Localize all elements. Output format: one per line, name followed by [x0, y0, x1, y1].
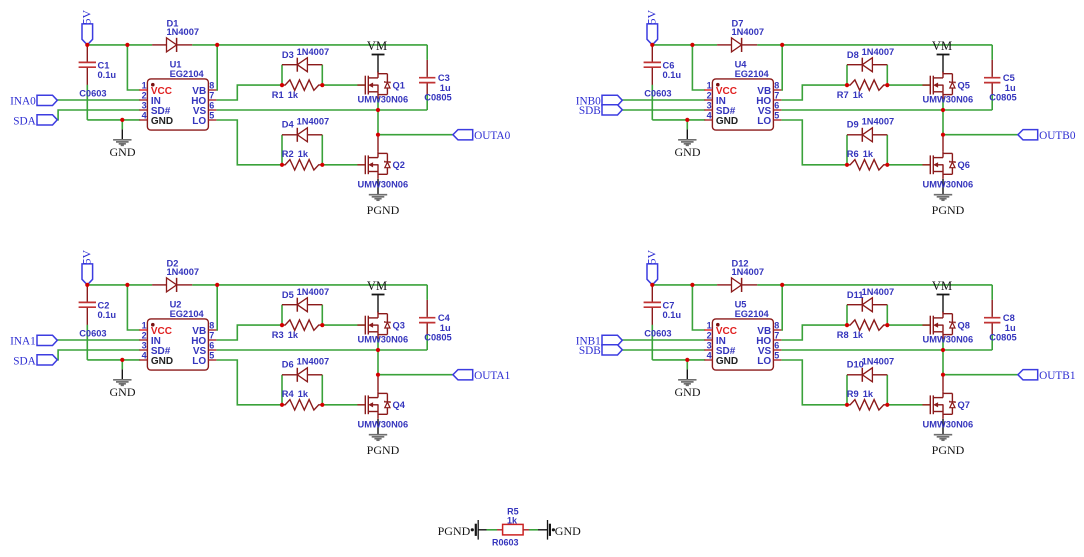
svg-text:R1: R1: [272, 90, 284, 100]
svg-text:C3: C3: [438, 73, 450, 83]
svg-text:PGND: PGND: [367, 203, 400, 217]
svg-text:D3: D3: [282, 50, 294, 60]
svg-text:4: 4: [707, 110, 712, 120]
svg-text:OUTB1: OUTB1: [1039, 370, 1075, 382]
svg-text:Q6: Q6: [958, 160, 970, 170]
svg-text:SDA: SDA: [13, 116, 36, 128]
svg-text:UMW30N06: UMW30N06: [358, 180, 409, 190]
svg-text:UMW30N06: UMW30N06: [358, 94, 409, 104]
svg-text:1N4007: 1N4007: [167, 27, 200, 37]
svg-text:1k: 1k: [863, 149, 874, 159]
svg-text:GND: GND: [675, 385, 701, 399]
svg-text:1k: 1k: [288, 90, 299, 100]
svg-text:UMW30N06: UMW30N06: [923, 180, 974, 190]
svg-text:1N4007: 1N4007: [862, 287, 895, 297]
svg-text:Q7: Q7: [958, 400, 970, 410]
svg-text:1N4007: 1N4007: [297, 356, 330, 366]
svg-text:GND: GND: [110, 145, 136, 159]
svg-text:C0603: C0603: [79, 89, 106, 99]
svg-text:5: 5: [774, 110, 779, 120]
svg-text:Q8: Q8: [958, 320, 970, 330]
svg-text:1N4007: 1N4007: [297, 287, 330, 297]
svg-text:R7: R7: [837, 90, 849, 100]
svg-text:LO: LO: [192, 116, 206, 127]
svg-text:Q4: Q4: [393, 400, 406, 410]
svg-text:1: 1: [142, 80, 147, 90]
svg-text:1k: 1k: [288, 330, 299, 340]
svg-text:LO: LO: [192, 356, 206, 367]
svg-text:SDB: SDB: [579, 345, 601, 357]
svg-text:C5: C5: [1003, 73, 1015, 83]
svg-text:C0603: C0603: [644, 329, 671, 339]
svg-text:VM: VM: [932, 39, 952, 53]
svg-text:0.1u: 0.1u: [98, 310, 117, 320]
svg-text:R0603: R0603: [492, 537, 519, 547]
svg-text:EG2104: EG2104: [170, 309, 205, 319]
svg-text:C0805: C0805: [424, 333, 451, 343]
svg-text:1u: 1u: [440, 83, 451, 93]
svg-text:3: 3: [707, 100, 712, 110]
svg-text:6: 6: [209, 100, 214, 110]
svg-text:8: 8: [774, 80, 779, 90]
svg-text:C4: C4: [438, 313, 451, 323]
svg-text:5: 5: [209, 110, 214, 120]
svg-text:1: 1: [142, 320, 147, 330]
svg-text:EG2104: EG2104: [735, 309, 770, 319]
svg-text:GND: GND: [110, 385, 136, 399]
svg-text:C0805: C0805: [989, 333, 1016, 343]
svg-text:0.1u: 0.1u: [663, 70, 682, 80]
svg-text:2: 2: [142, 90, 147, 100]
svg-text:1u: 1u: [1005, 323, 1016, 333]
svg-text:OUTB0: OUTB0: [1039, 130, 1076, 142]
svg-text:OUTA1: OUTA1: [474, 370, 510, 382]
svg-text:1u: 1u: [440, 323, 451, 333]
svg-text:PGND: PGND: [932, 203, 965, 217]
svg-text:4: 4: [142, 350, 147, 360]
svg-text:EG2104: EG2104: [170, 69, 205, 79]
svg-text:4: 4: [707, 350, 712, 360]
svg-text:GND: GND: [716, 116, 738, 127]
svg-text:GND: GND: [675, 145, 701, 159]
svg-text:R4: R4: [282, 389, 295, 399]
svg-text:1k: 1k: [298, 389, 309, 399]
svg-text:INA0: INA0: [10, 95, 36, 107]
svg-text:5: 5: [209, 350, 214, 360]
svg-text:1: 1: [707, 320, 712, 330]
svg-text:0.1u: 0.1u: [663, 310, 682, 320]
svg-text:SDA: SDA: [13, 356, 36, 368]
svg-text:LO: LO: [757, 116, 771, 127]
svg-text:1N4007: 1N4007: [732, 267, 765, 277]
svg-text:GND: GND: [151, 116, 173, 127]
svg-text:6: 6: [209, 340, 214, 350]
svg-text:0.1u: 0.1u: [98, 70, 117, 80]
svg-text:1N4007: 1N4007: [732, 27, 765, 37]
svg-text:C0805: C0805: [989, 93, 1016, 103]
svg-text:D8: D8: [847, 50, 859, 60]
svg-text:1k: 1k: [853, 90, 864, 100]
svg-text:3: 3: [142, 100, 147, 110]
svg-text:2: 2: [707, 330, 712, 340]
svg-text:SDB: SDB: [579, 105, 601, 117]
svg-text:1k: 1k: [298, 149, 309, 159]
svg-text:3: 3: [707, 340, 712, 350]
svg-text:INA1: INA1: [10, 335, 36, 347]
svg-text:5V: 5V: [79, 250, 93, 265]
svg-text:R9: R9: [847, 389, 859, 399]
svg-text:UMW30N06: UMW30N06: [358, 334, 409, 344]
svg-text:D4: D4: [282, 120, 295, 130]
svg-text:5V: 5V: [644, 250, 658, 265]
svg-text:VM: VM: [367, 279, 387, 293]
svg-text:GND: GND: [716, 356, 738, 367]
svg-text:2: 2: [142, 330, 147, 340]
svg-text:5V: 5V: [79, 10, 93, 25]
svg-text:R2: R2: [282, 149, 294, 159]
svg-text:PGND: PGND: [438, 524, 471, 538]
svg-text:1k: 1k: [853, 330, 864, 340]
svg-text:OUTA0: OUTA0: [474, 130, 510, 142]
svg-text:2: 2: [707, 90, 712, 100]
svg-text:1N4007: 1N4007: [862, 116, 895, 126]
svg-text:1k: 1k: [507, 516, 518, 526]
svg-text:Q5: Q5: [958, 80, 970, 90]
svg-text:1k: 1k: [863, 389, 874, 399]
svg-text:Q3: Q3: [393, 320, 405, 330]
svg-text:7: 7: [209, 330, 214, 340]
svg-text:5: 5: [774, 350, 779, 360]
svg-text:4: 4: [142, 110, 147, 120]
svg-text:C0603: C0603: [644, 89, 671, 99]
svg-text:D9: D9: [847, 120, 859, 130]
svg-text:PGND: PGND: [367, 443, 400, 457]
svg-text:GND: GND: [555, 524, 581, 538]
svg-text:D5: D5: [282, 290, 294, 300]
svg-text:1N4007: 1N4007: [297, 47, 330, 57]
svg-text:C8: C8: [1003, 313, 1015, 323]
svg-text:3: 3: [142, 340, 147, 350]
svg-text:Q2: Q2: [393, 160, 405, 170]
svg-text:UMW30N06: UMW30N06: [358, 420, 409, 430]
svg-text:R6: R6: [847, 149, 859, 159]
svg-text:LO: LO: [757, 356, 771, 367]
svg-text:1: 1: [707, 80, 712, 90]
svg-text:VM: VM: [932, 279, 952, 293]
svg-text:6: 6: [774, 100, 779, 110]
svg-text:7: 7: [774, 330, 779, 340]
svg-text:UMW30N06: UMW30N06: [923, 334, 974, 344]
svg-text:6: 6: [774, 340, 779, 350]
svg-text:C0603: C0603: [79, 329, 106, 339]
svg-text:7: 7: [209, 90, 214, 100]
svg-text:UMW30N06: UMW30N06: [923, 94, 974, 104]
svg-text:C0805: C0805: [424, 93, 451, 103]
svg-text:8: 8: [209, 320, 214, 330]
svg-text:R3: R3: [272, 330, 284, 340]
svg-text:8: 8: [209, 80, 214, 90]
svg-text:D6: D6: [282, 360, 294, 370]
svg-text:8: 8: [774, 320, 779, 330]
svg-text:1N4007: 1N4007: [862, 47, 895, 57]
svg-text:VM: VM: [367, 39, 387, 53]
svg-text:5V: 5V: [644, 9, 658, 24]
svg-text:1N4007: 1N4007: [167, 267, 200, 277]
svg-text:1u: 1u: [1005, 83, 1016, 93]
svg-text:GND: GND: [151, 356, 173, 367]
svg-text:EG2104: EG2104: [735, 69, 770, 79]
svg-text:Q1: Q1: [393, 80, 405, 90]
svg-text:1N4007: 1N4007: [297, 116, 330, 126]
svg-text:7: 7: [774, 90, 779, 100]
svg-text:1N4007: 1N4007: [862, 356, 895, 366]
svg-text:UMW30N06: UMW30N06: [923, 420, 974, 430]
svg-text:PGND: PGND: [932, 443, 965, 457]
svg-text:R8: R8: [837, 330, 849, 340]
